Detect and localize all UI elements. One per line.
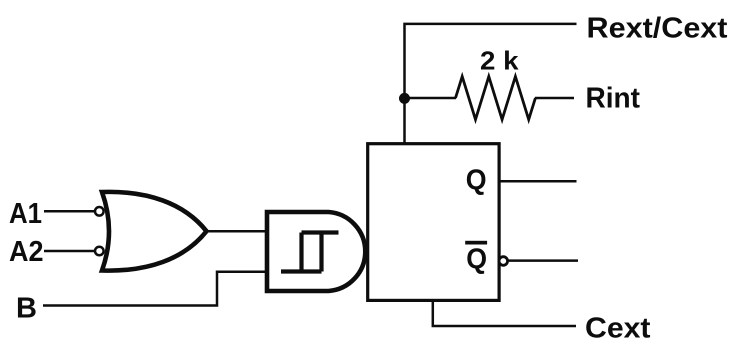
svg-text:2 k: 2 k <box>480 45 519 75</box>
wire Cext bottom <box>433 300 576 326</box>
output bubble Qbar <box>499 257 508 266</box>
wire Q output <box>499 180 577 183</box>
resistor R1 2k zigzag <box>456 77 536 120</box>
svg-text:Q: Q <box>466 243 487 275</box>
junction node dot <box>399 93 410 104</box>
wire Rint right <box>535 97 574 100</box>
svg-text:Rint: Rint <box>586 82 641 114</box>
svg-text:A1: A1 <box>9 198 42 230</box>
hysteresis symbol <box>281 233 339 272</box>
wire Rext/Cext top <box>405 24 577 144</box>
svg-text:Rext/Cext: Rext/Cext <box>587 12 728 44</box>
NOR gate U1 body <box>102 192 207 271</box>
wire Qbar output <box>508 259 578 262</box>
wire A2 input <box>44 250 97 253</box>
Qbar overline <box>465 241 487 245</box>
wire A1 input <box>44 210 97 213</box>
wire NOR output to AND input <box>200 230 267 233</box>
wire B input <box>43 272 267 306</box>
input bubble A1 <box>95 207 104 216</box>
svg-text:A2: A2 <box>9 236 44 268</box>
wire resistor left <box>405 97 457 100</box>
svg-text:Cext: Cext <box>585 313 651 345</box>
Schmitt AND gate U2 body <box>267 212 365 291</box>
svg-text:Q: Q <box>466 165 487 197</box>
svg-text:B: B <box>16 293 37 325</box>
monostable block U3 <box>368 144 499 301</box>
input bubble A2 <box>95 247 104 256</box>
